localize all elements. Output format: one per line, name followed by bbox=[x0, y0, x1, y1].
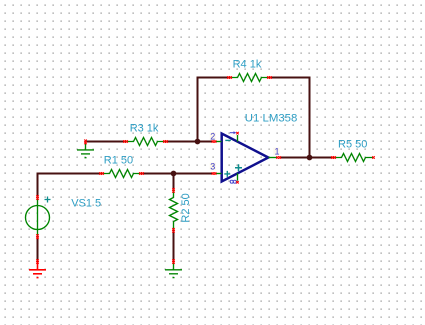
svg-text:R3 1k: R3 1k bbox=[130, 123, 159, 135]
ground near R3 (green) bbox=[77, 143, 94, 158]
pin end marks: ground below R2 bbox=[172, 259, 175, 262]
VS1 plus mark bbox=[45, 197, 51, 203]
wire R2 to ground bbox=[173, 230, 175, 262]
pin end marks: R2 top bbox=[172, 188, 175, 191]
pin end marks: ground below VS1 bbox=[36, 259, 39, 262]
op-amp pin1 output stub bbox=[269, 157, 278, 159]
op-amp plus mark power bbox=[235, 164, 242, 171]
pin end marks: R2 bottom bbox=[172, 228, 175, 231]
op-amp bottom infinity glyph bbox=[230, 180, 233, 183]
svg-text:U1 LM358: U1 LM358 bbox=[245, 112, 298, 124]
voltage source VS1 bbox=[26, 206, 50, 230]
node at feedback/pin2 junction bbox=[195, 139, 201, 145]
pin end marks: R4 right bbox=[267, 76, 270, 79]
pin end mark: op-amp V- pin bbox=[236, 181, 239, 184]
pin end mark: R5 right open bbox=[372, 156, 375, 159]
svg-text:2: 2 bbox=[210, 132, 215, 142]
pin end mark: op-amp V+ pin bbox=[236, 132, 239, 135]
resistor R5 bbox=[334, 154, 374, 162]
svg-text:3: 3 bbox=[210, 162, 215, 172]
pin end marks: op-amp pin2 bbox=[212, 140, 215, 143]
pin end marks: R5 left bbox=[331, 156, 334, 159]
op-amp plus mark pin3 bbox=[224, 171, 230, 177]
pin end marks: VS1 top bbox=[36, 195, 39, 198]
svg-text:R5 50: R5 50 bbox=[338, 138, 367, 150]
wire ground to R3 bbox=[86, 141, 126, 143]
op-amp minus mark bbox=[225, 139, 231, 141]
resistor R1 bbox=[102, 170, 142, 178]
op-amp pin3 stub bbox=[216, 173, 222, 175]
pin end marks: R1 right bbox=[139, 172, 142, 175]
op-amp bottom power stub bbox=[237, 173, 239, 180]
pin number 2 bbox=[210, 133, 216, 141]
wire feedback right down to output bbox=[270, 78, 310, 158]
resistor R4 bbox=[230, 74, 270, 82]
pin end marks: op-amp pin1 bbox=[276, 156, 279, 159]
wire R3 to op-amp pin2 bbox=[166, 141, 213, 143]
pin number 1 bbox=[273, 148, 279, 156]
pin end marks: ground near R3 bbox=[84, 140, 87, 143]
ground below VS1 (red) bbox=[29, 262, 46, 278]
svg-text:VS1 5: VS1 5 bbox=[71, 198, 101, 210]
svg-text:R1 50: R1 50 bbox=[104, 154, 133, 166]
node at R1/R2/pin3 junction bbox=[171, 171, 177, 177]
svg-text:R2 50: R2 50 bbox=[180, 193, 192, 222]
pin end marks: op-amp pin3 bbox=[212, 172, 215, 175]
resistor R2 (vertical) bbox=[170, 190, 178, 230]
pin end marks: R4 left bbox=[227, 76, 230, 79]
pin end marks: R3 right bbox=[163, 140, 166, 143]
wire feedback left and top bbox=[198, 78, 230, 142]
pin end marks: R3 left bbox=[123, 140, 126, 143]
wire output to R5 bbox=[281, 157, 334, 159]
node at output junction bbox=[307, 155, 313, 161]
svg-text:R4 1k: R4 1k bbox=[233, 58, 262, 70]
op-amp U1 triangle bbox=[222, 134, 269, 182]
svg-text:1: 1 bbox=[275, 147, 280, 157]
wire VS1 to ground bbox=[37, 237, 39, 262]
op-amp pin2 stub bbox=[216, 141, 222, 143]
wire R1 to op-amp pin3 bbox=[142, 173, 213, 175]
op-amp top power stub bbox=[237, 135, 239, 142]
pin end marks: R1 left bbox=[99, 172, 102, 175]
ground below R2 (green) bbox=[165, 262, 182, 278]
op-amp top arrow glyph bbox=[230, 132, 234, 134]
pin end marks: VS1 bottom bbox=[36, 234, 39, 237]
pin number 3 bbox=[210, 163, 216, 171]
resistor R3 bbox=[126, 138, 166, 146]
wire node to R2 bbox=[173, 174, 175, 190]
wire VS1 to R1 bbox=[38, 174, 102, 198]
